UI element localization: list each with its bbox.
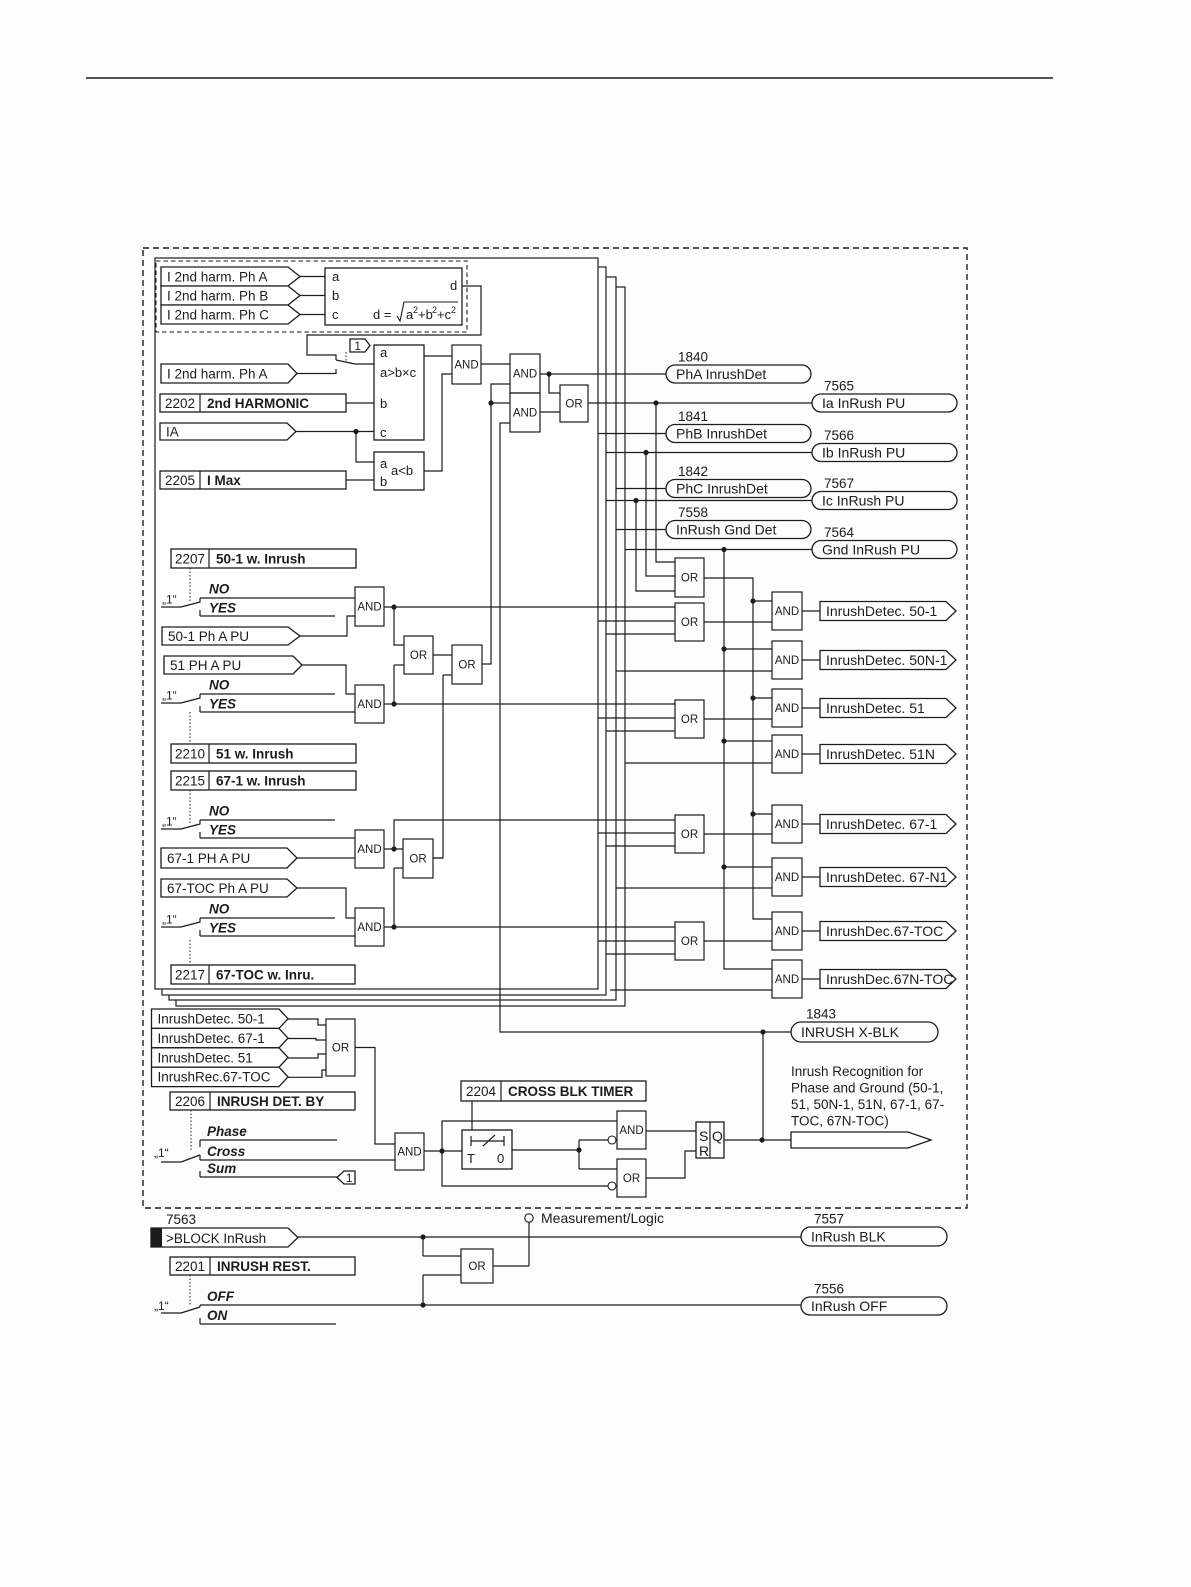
svg-text:2: 2	[451, 305, 456, 315]
svg-text:AND: AND	[513, 408, 537, 420]
svg-text:AND: AND	[357, 602, 381, 614]
svg-text:Phase and Ground (50-1,: Phase and Ground (50-1,	[791, 1081, 943, 1096]
svg-text:OR: OR	[458, 660, 475, 672]
svg-text:7556: 7556	[814, 1282, 844, 1297]
svg-text:InRush Gnd Det: InRush Gnd Det	[676, 522, 776, 538]
svg-text:R: R	[699, 1143, 709, 1159]
svg-text:S: S	[699, 1128, 708, 1144]
svg-text:InRush BLK: InRush BLK	[811, 1229, 886, 1245]
svg-text:Ib InRush PU: Ib InRush PU	[822, 445, 905, 461]
svg-text:2206: 2206	[175, 1094, 205, 1109]
svg-text:d: d	[450, 278, 457, 293]
svg-text:AND: AND	[775, 819, 799, 831]
svg-text:IA: IA	[166, 424, 179, 439]
svg-text:PhC InrushDet: PhC InrushDet	[676, 481, 768, 497]
svg-text:7564: 7564	[824, 525, 855, 540]
svg-text:InrushDetec. 50-1: InrushDetec. 50-1	[158, 1012, 265, 1027]
svg-text:AND: AND	[454, 360, 478, 372]
svg-text:OR: OR	[681, 829, 698, 841]
svg-text:2217: 2217	[175, 967, 205, 982]
svg-text:0: 0	[497, 1151, 504, 1166]
svg-text:a: a	[380, 345, 388, 360]
svg-text:„1“: „1“	[162, 815, 177, 829]
svg-text:I 2nd harm. Ph B: I 2nd harm. Ph B	[167, 288, 268, 303]
svg-text:2210: 2210	[175, 746, 205, 761]
svg-text:50-1 Ph A PU: 50-1 Ph A PU	[168, 629, 249, 644]
svg-text:50-1 w. Inrush: 50-1 w. Inrush	[216, 551, 306, 566]
svg-text:NO: NO	[209, 678, 230, 693]
svg-text:+b: +b	[418, 307, 433, 322]
svg-text:OR: OR	[409, 854, 426, 866]
svg-text:NO: NO	[209, 902, 230, 917]
svg-text:I 2nd harm. Ph A: I 2nd harm. Ph A	[167, 269, 268, 284]
svg-text:Ia InRush PU: Ia InRush PU	[822, 395, 905, 411]
svg-text:+c: +c	[437, 307, 452, 322]
svg-text:Phase: Phase	[207, 1124, 247, 1139]
svg-text:YES: YES	[209, 921, 236, 936]
svg-text:„1“: „1“	[162, 913, 177, 927]
svg-text:AND: AND	[775, 926, 799, 938]
svg-text:2204: 2204	[466, 1084, 497, 1099]
svg-text:AND: AND	[357, 922, 381, 934]
svg-text:AND: AND	[357, 699, 381, 711]
svg-text:1843: 1843	[806, 1007, 836, 1022]
svg-text:67-1 w. Inrush: 67-1 w. Inrush	[216, 773, 306, 788]
svg-text:AND: AND	[513, 369, 537, 381]
svg-text:Measurement/Logic: Measurement/Logic	[541, 1210, 664, 1226]
svg-text:PhB InrushDet: PhB InrushDet	[676, 426, 767, 442]
svg-text:AND: AND	[357, 844, 381, 856]
svg-text:51 PH A PU: 51 PH A PU	[170, 658, 241, 673]
svg-text:INRUSH DET. BY: INRUSH DET. BY	[217, 1094, 324, 1109]
svg-text:YES: YES	[209, 697, 236, 712]
svg-text:b: b	[332, 288, 339, 303]
svg-text:InrushRec.67-TOC: InrushRec.67-TOC	[158, 1070, 271, 1085]
svg-text:7567: 7567	[824, 476, 854, 491]
svg-text:OR: OR	[623, 1173, 640, 1185]
svg-text:AND: AND	[775, 749, 799, 761]
svg-text:InrushDetec. 51N: InrushDetec. 51N	[826, 746, 935, 762]
svg-text:YES: YES	[209, 823, 236, 838]
svg-text:2201: 2201	[175, 1259, 205, 1274]
svg-text:51, 50N-1, 51N, 67-1, 67-: 51, 50N-1, 51N, 67-1, 67-	[791, 1097, 944, 1112]
svg-text:a: a	[380, 456, 388, 471]
svg-text:OR: OR	[410, 650, 427, 662]
svg-text:„1“: „1“	[154, 1299, 169, 1313]
svg-text:OR: OR	[681, 617, 698, 629]
svg-text:c: c	[380, 425, 387, 440]
svg-text:ON: ON	[207, 1308, 228, 1323]
svg-text:InrushDetec. 50N-1: InrushDetec. 50N-1	[826, 652, 948, 668]
svg-text:„1“: „1“	[162, 593, 177, 607]
svg-text:CROSS BLK TIMER: CROSS BLK TIMER	[508, 1084, 634, 1099]
svg-text:I 2nd harm. Ph A: I 2nd harm. Ph A	[167, 366, 268, 381]
svg-text:AND: AND	[775, 974, 799, 986]
svg-text:AND: AND	[619, 1125, 643, 1137]
svg-text:InrushDetec. 50-1: InrushDetec. 50-1	[826, 603, 937, 619]
svg-text:AND: AND	[775, 703, 799, 715]
svg-text:InrushDetec. 51: InrushDetec. 51	[826, 700, 925, 716]
svg-text:OR: OR	[468, 1261, 485, 1273]
svg-text:67-1 PH A PU: 67-1 PH A PU	[167, 851, 250, 866]
svg-text:a<b: a<b	[391, 463, 413, 478]
svg-text:Ic InRush PU: Ic InRush PU	[822, 493, 904, 509]
svg-text:d =: d =	[373, 307, 391, 322]
svg-text:PhA InrushDet: PhA InrushDet	[676, 366, 766, 382]
svg-text:a: a	[332, 269, 340, 284]
svg-text:>BLOCK InRush: >BLOCK InRush	[166, 1231, 266, 1246]
svg-text:b: b	[380, 474, 387, 489]
svg-text:OR: OR	[681, 936, 698, 948]
svg-text:1: 1	[355, 341, 361, 353]
svg-text:2nd HARMONIC: 2nd HARMONIC	[207, 396, 309, 411]
svg-text:AND: AND	[775, 606, 799, 618]
svg-text:7558: 7558	[678, 505, 708, 520]
svg-text:c: c	[332, 307, 339, 322]
svg-text:NO: NO	[209, 582, 230, 597]
svg-text:Inrush Recognition for: Inrush Recognition for	[791, 1064, 924, 1079]
svg-text:AND: AND	[775, 872, 799, 884]
svg-text:7565: 7565	[824, 379, 854, 394]
svg-text:„1“: „1“	[154, 1146, 169, 1160]
svg-text:InrushDec.67N-TOC: InrushDec.67N-TOC	[826, 971, 953, 987]
svg-text:InrushDetec. 67-1: InrushDetec. 67-1	[158, 1031, 265, 1046]
svg-text:I Max: I Max	[207, 473, 241, 488]
svg-text:AND: AND	[397, 1147, 421, 1159]
svg-text:1840: 1840	[678, 350, 708, 365]
svg-text:2205: 2205	[165, 473, 195, 488]
svg-text:OR: OR	[332, 1043, 349, 1055]
svg-text:Q: Q	[712, 1128, 723, 1144]
svg-text:1841: 1841	[678, 409, 708, 424]
svg-text:InrushDetec. 51: InrushDetec. 51	[158, 1050, 253, 1065]
svg-text:67-TOC w. Inru.: 67-TOC w. Inru.	[216, 967, 314, 982]
svg-text:2207: 2207	[175, 551, 205, 566]
svg-text:INRUSH X-BLK: INRUSH X-BLK	[801, 1024, 900, 1040]
svg-text:OR: OR	[681, 573, 698, 585]
svg-text:7563: 7563	[166, 1212, 196, 1227]
svg-text:YES: YES	[209, 601, 236, 616]
svg-text:INRUSH REST.: INRUSH REST.	[217, 1259, 311, 1274]
svg-text:2202: 2202	[165, 396, 195, 411]
svg-text:AND: AND	[775, 655, 799, 667]
svg-text:Gnd InRush PU: Gnd InRush PU	[822, 542, 920, 558]
svg-text:1842: 1842	[678, 464, 708, 479]
svg-text:Sum: Sum	[207, 1161, 236, 1176]
svg-text:a>b×c: a>b×c	[380, 365, 417, 380]
svg-text:InrushDec.67-TOC: InrushDec.67-TOC	[826, 923, 943, 939]
svg-text:OR: OR	[565, 399, 582, 411]
svg-text:I 2nd harm. Ph C: I 2nd harm. Ph C	[167, 307, 269, 322]
svg-text:InRush OFF: InRush OFF	[811, 1298, 887, 1314]
svg-text:7566: 7566	[824, 428, 854, 443]
svg-text:T: T	[467, 1151, 475, 1166]
svg-text:TOC, 67N-TOC): TOC, 67N-TOC)	[791, 1114, 889, 1129]
svg-text:InrushDetec. 67-1: InrushDetec. 67-1	[826, 816, 937, 832]
svg-text:51 w. Inrush: 51 w. Inrush	[216, 746, 294, 761]
svg-text:OFF: OFF	[207, 1289, 235, 1304]
svg-text:2215: 2215	[175, 773, 205, 788]
svg-text:67-TOC Ph A PU: 67-TOC Ph A PU	[167, 881, 269, 896]
svg-text:Cross: Cross	[207, 1144, 246, 1159]
svg-text:„1“: „1“	[162, 689, 177, 703]
svg-text:InrushDetec. 67-N1: InrushDetec. 67-N1	[826, 869, 948, 885]
svg-text:NO: NO	[209, 804, 230, 819]
svg-text:7557: 7557	[814, 1212, 844, 1227]
svg-text:1: 1	[346, 1173, 352, 1185]
svg-text:b: b	[380, 396, 387, 411]
svg-text:OR: OR	[681, 714, 698, 726]
